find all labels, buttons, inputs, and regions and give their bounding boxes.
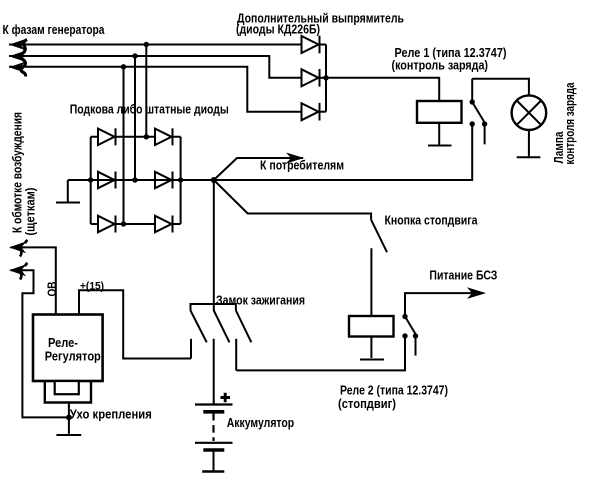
diode VD2 bridge row1 right — [155, 128, 173, 145]
node phase1 at bridge row1 — [144, 134, 149, 139]
diode VD6 bridge row3 right — [155, 216, 173, 233]
wire ignition terminal 1 — [190, 339, 192, 359]
node phase3 at bridge row3 — [121, 221, 126, 226]
node phase2 at bridge row2 — [132, 177, 137, 182]
svg-text:(диоды КД226Б): (диоды КД226Б) — [236, 23, 320, 37]
lamp HL1 charge control — [512, 95, 547, 130]
wire relay1 contact feed — [471, 79, 473, 102]
ground relay2 coil — [360, 359, 384, 361]
node relay1 contact common — [470, 99, 475, 104]
node relay2 contact lower right — [413, 333, 418, 338]
wire phase line 1 — [9, 44, 302, 46]
wire ear to ground — [68, 403, 70, 434]
arrowhead to excitation winding upper — [9, 240, 28, 257]
node rectifier output — [323, 75, 328, 80]
relay K1 coil — [417, 101, 462, 123]
node relay1 contact lower right — [482, 121, 487, 126]
node relay2 contact common — [402, 314, 407, 319]
svg-text:(стопдвиг): (стопдвиг) — [338, 397, 396, 411]
mounting ear inner — [55, 381, 79, 394]
diode VD7 additional rectifier top — [302, 36, 327, 54]
svg-text:Замок зажигания: Замок зажигания — [216, 294, 305, 308]
wire rectifier output to relay1 coil — [326, 78, 439, 101]
wire relay1 contact stub — [484, 124, 486, 144]
node ear ground junction — [66, 415, 72, 421]
ignition lock blade middle — [214, 304, 230, 342]
svg-text:Реле-: Реле- — [48, 336, 78, 350]
battery minus plate 1 — [203, 410, 224, 414]
wire Питание БСЗ — [405, 293, 482, 316]
svg-text:Кнопка стопдвига: Кнопка стопдвига — [385, 214, 479, 228]
diode VD3 bridge row2 left — [98, 172, 116, 189]
wire bridge row3 — [91, 223, 181, 225]
wire relay1 coil tail — [438, 123, 440, 145]
arrowhead to excitation winding lower — [9, 263, 28, 280]
wire ignition terminal 3 — [235, 339, 237, 371]
wire bridge row1 — [91, 136, 181, 138]
arrowhead phase 3 — [9, 62, 25, 73]
wire lamp tail — [528, 130, 530, 156]
node tap phase2 — [132, 53, 137, 58]
relay K1 contact blade — [472, 102, 484, 123]
svg-text:Питание БСЗ: Питание БСЗ — [429, 269, 497, 283]
svg-text:Ухо крепления: Ухо крепления — [70, 408, 152, 422]
wire battery dashed middle — [212, 413, 214, 441]
wire main B+ rail — [68, 124, 472, 180]
ground lamp — [517, 156, 541, 158]
ignition lock SA1 bar — [191, 304, 236, 311]
squiggle joining phase arrows — [21, 40, 27, 77]
node relay1 contact lower left — [470, 121, 475, 126]
node tap phase1 — [144, 42, 149, 47]
ground regulator — [56, 434, 81, 436]
wire to consumers diagonal — [214, 158, 303, 180]
relay-regulator box — [33, 315, 103, 382]
wire phase2 drop to bridge row2 — [134, 56, 136, 180]
arrowhead phase 2 — [9, 51, 25, 62]
wire OV from regulator to brushes — [11, 247, 56, 314]
diode VD1 bridge row1 left — [98, 128, 116, 145]
svg-text:К обмотке возбуждения: К обмотке возбуждения — [11, 112, 25, 233]
wire ignition terminal 2 to battery — [213, 339, 215, 404]
wire node to ignition lock — [213, 180, 215, 304]
wire bridge left rail — [90, 137, 92, 224]
svg-text:К потребителям: К потребителям — [260, 159, 344, 173]
ground bridge — [56, 202, 80, 204]
svg-text:Реле 2 (типа 12.3747): Реле 2 (типа 12.3747) — [340, 384, 448, 398]
mounting ear bracket — [45, 381, 91, 403]
battery minus plate 2 — [203, 448, 224, 452]
wire button terminal to relay2 coil — [370, 248, 372, 316]
wire additional rectifier cathode bus — [325, 45, 327, 112]
node relay2 contact lower left — [402, 333, 407, 338]
arrowhead Питание БСЗ — [467, 287, 486, 299]
relay K2 coil — [349, 316, 394, 337]
node main junction — [211, 177, 217, 183]
wire to stop button — [214, 180, 371, 220]
wire bridge ground drop — [67, 180, 69, 202]
svg-text:контроля заряда: контроля заряда — [563, 82, 577, 165]
ground relay1 coil — [428, 145, 452, 147]
wire relay2 to ignition lock — [236, 336, 405, 370]
node bridge right rail row2 — [178, 177, 183, 182]
wire relay2 contact stub — [415, 336, 417, 356]
relay K2 contact blade — [405, 317, 416, 335]
wire +(15) from regulator to ignition — [79, 290, 191, 358]
wire lamp feed — [472, 79, 529, 97]
wire phase line 3 — [9, 67, 302, 112]
node bridge left rail row2 — [88, 177, 93, 182]
svg-text:(щеткам): (щеткам) — [24, 188, 38, 236]
svg-text:К фазам генератора: К фазам генератора — [3, 23, 106, 37]
button SB1 blade — [371, 220, 387, 252]
arrowhead к потребителям — [286, 153, 304, 164]
svg-text:Аккумулятор: Аккумулятор — [227, 416, 295, 430]
label battery plus — [221, 393, 231, 402]
svg-text:+(15): +(15) — [80, 281, 104, 293]
battery GB1 plus plate — [195, 403, 233, 405]
arrowhead phase 1 — [9, 39, 25, 50]
wire phase3 drop to bridge row3 — [123, 67, 125, 224]
wire relay2 coil tail — [370, 337, 372, 359]
node tap phase3 — [121, 64, 126, 69]
ignition lock blade right — [236, 311, 251, 343]
diode VD5 bridge row3 left — [98, 216, 116, 233]
diode VD8 additional rectifier middle — [302, 69, 327, 87]
ground battery — [202, 470, 224, 472]
diode VD4 bridge row2 right — [155, 172, 173, 189]
svg-text:(контроль заряда): (контроль заряда) — [392, 59, 489, 73]
wire bridge right rail — [180, 137, 182, 224]
wire phase line 2 — [9, 56, 302, 78]
wire battery tail — [213, 450, 215, 471]
wire phase1 drop to bridge row1 — [145, 45, 147, 137]
battery plus plate 2 — [195, 442, 233, 444]
wire regulator case to brush minus — [11, 270, 69, 417]
diode VD9 additional rectifier bottom — [302, 103, 327, 121]
svg-text:ОВ: ОВ — [47, 282, 59, 297]
svg-text:Подкова либо штатные диоды: Подкова либо штатные диоды — [70, 103, 229, 117]
ignition lock blade left — [191, 311, 207, 343]
svg-text:Регулятор: Регулятор — [45, 350, 101, 364]
